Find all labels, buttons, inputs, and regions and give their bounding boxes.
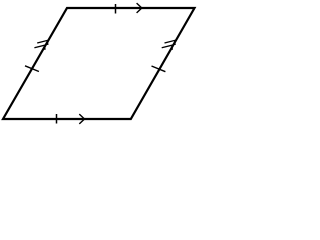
- double arrow mark right side (chevron 1): [165, 40, 176, 45]
- tick mark bottom side: [56, 114, 58, 124]
- tick mark left side: [25, 66, 39, 72]
- parallelogram ABCD: [3, 8, 195, 119]
- double arrow mark right side (chevron 2): [162, 45, 173, 50]
- double arrow mark left side (chevron 2): [34, 45, 45, 50]
- tick mark top side: [115, 4, 117, 14]
- arrow mark top side: [137, 3, 142, 13]
- tick mark right side: [152, 66, 166, 72]
- arrow mark bottom side: [79, 114, 84, 124]
- double arrow mark left side (chevron 1): [37, 40, 48, 45]
